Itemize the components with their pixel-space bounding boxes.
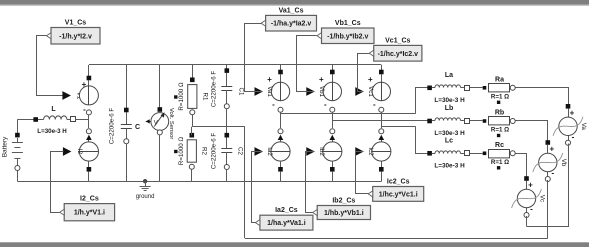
svg-text:-1/h.y*I2.v: -1/h.y*I2.v xyxy=(59,33,92,40)
svg-text:-: - xyxy=(83,105,86,114)
svg-text:Vc1_Cs: Vc1_Cs xyxy=(385,37,410,44)
svg-text:R=1000 Ω: R=1000 Ω xyxy=(178,82,185,111)
svg-text:L=30e-3 H: L=30e-3 H xyxy=(434,97,465,104)
svg-text:La: La xyxy=(445,72,453,79)
svg-text:C2: C2 xyxy=(237,147,244,155)
svg-text:I2: I2 xyxy=(76,149,83,155)
svg-text:Ia2: Ia2 xyxy=(266,147,273,156)
svg-text:Vc: Vc xyxy=(539,195,546,202)
svg-text:V1_Cs: V1_Cs xyxy=(65,20,87,27)
svg-text:+: + xyxy=(368,75,373,84)
svg-text:C=2200e-6 F: C=2200e-6 F xyxy=(109,108,116,145)
svg-text:R=1000 Ω: R=1000 Ω xyxy=(178,137,185,166)
svg-text:-1/ha.y*Ia2.v: -1/ha.y*Ia2.v xyxy=(271,21,312,28)
svg-text:-: - xyxy=(324,100,327,109)
svg-text:Battery: Battery xyxy=(1,136,8,157)
svg-text:Ra: Ra xyxy=(495,76,504,83)
svg-text:Vb1: Vb1 xyxy=(318,86,325,98)
svg-text:V: V xyxy=(154,121,158,127)
svg-text:-: - xyxy=(551,169,554,178)
svg-text:Rc: Rc xyxy=(495,142,504,149)
svg-text:Ic2_Cs: Ic2_Cs xyxy=(387,179,410,186)
svg-text:L: L xyxy=(51,106,56,113)
svg-text:R=1 Ω: R=1 Ω xyxy=(491,127,509,134)
svg-text:I2_Cs: I2_Cs xyxy=(80,196,99,203)
svg-text:-: - xyxy=(530,205,533,214)
svg-text:1/hc.y*Vc1.i: 1/hc.y*Vc1.i xyxy=(379,191,418,198)
svg-text:Rb: Rb xyxy=(495,110,504,117)
svg-text:Vb: Vb xyxy=(560,159,567,167)
svg-text:L=30e-3 H: L=30e-3 H xyxy=(434,163,465,170)
svg-text:R=1 Ω: R=1 Ω xyxy=(491,159,509,166)
svg-text:1/hb.y*Vb1.i: 1/hb.y*Vb1.i xyxy=(324,210,364,217)
svg-text:L=30e-3 H: L=30e-3 H xyxy=(434,130,465,137)
svg-text:+: + xyxy=(319,75,324,84)
svg-text:1/h.y*V1.i: 1/h.y*V1.i xyxy=(74,210,105,217)
svg-text:Ib2: Ib2 xyxy=(318,147,325,156)
svg-text:Lc: Lc xyxy=(445,137,453,144)
svg-text:Vb1_Cs: Vb1_Cs xyxy=(335,20,361,27)
svg-text:C=2200e-6 F: C=2200e-6 F xyxy=(211,133,218,170)
svg-text:Ib2_Cs: Ib2_Cs xyxy=(332,198,355,205)
svg-text:+: + xyxy=(82,80,87,89)
svg-text:Ia2_Cs: Ia2_Cs xyxy=(275,207,298,214)
svg-text:-: - xyxy=(373,100,376,109)
svg-text:+: + xyxy=(267,75,272,84)
svg-text:R=1 Ω: R=1 Ω xyxy=(491,93,509,100)
svg-text:+: + xyxy=(549,145,554,154)
svg-text:C: C xyxy=(135,124,140,131)
svg-text:1/ha.y*Va1.i: 1/ha.y*Va1.i xyxy=(267,220,306,227)
svg-text:Va1: Va1 xyxy=(266,86,273,97)
svg-text:Lb: Lb xyxy=(445,105,454,112)
svg-text:-: - xyxy=(272,100,275,109)
svg-text:Volt. Sensor: Volt. Sensor xyxy=(168,108,174,139)
svg-text:ground: ground xyxy=(136,194,155,200)
svg-text:R2: R2 xyxy=(201,147,208,155)
svg-text:Va1_Cs: Va1_Cs xyxy=(279,7,304,14)
svg-text:Ic2: Ic2 xyxy=(367,147,374,156)
svg-text:Va: Va xyxy=(580,123,587,131)
svg-text:Vc1: Vc1 xyxy=(367,86,374,97)
svg-text:+: + xyxy=(528,181,533,190)
svg-text:-1/hb.y*Ib2.v: -1/hb.y*Ib2.v xyxy=(327,33,368,40)
svg-text:-: - xyxy=(572,132,575,141)
svg-text:C=2200e-6 F: C=2200e-6 F xyxy=(211,71,218,108)
svg-text:R1: R1 xyxy=(202,93,209,101)
svg-text:-1/hc.y*Ic2.v: -1/hc.y*Ic2.v xyxy=(378,51,419,58)
svg-text:L=30e-3 H: L=30e-3 H xyxy=(37,128,67,135)
svg-text:+: + xyxy=(570,108,575,117)
svg-text:C1: C1 xyxy=(238,88,245,96)
